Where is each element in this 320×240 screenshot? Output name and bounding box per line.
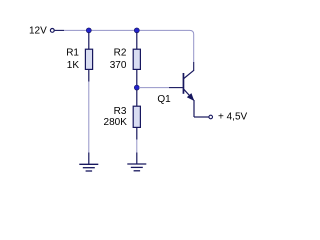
label R1 1K <box>66 48 79 71</box>
svg-text:Q1: Q1 <box>157 94 171 105</box>
resistor R1 <box>85 32 92 82</box>
label R2 370 <box>110 48 127 71</box>
svg-text:12V: 12V <box>29 26 47 37</box>
wire: R1 bottom to ground <box>88 82 90 153</box>
wire: node C to base <box>139 87 169 89</box>
wire: base pin <box>169 87 183 89</box>
resistor R3 <box>133 90 140 140</box>
transistor Q1 <box>183 70 195 117</box>
ground (under R3) <box>127 153 146 171</box>
wire: terminal pin stub <box>55 29 64 31</box>
node A junction (R1 top) <box>86 28 91 33</box>
wire: emitter to output terminal <box>194 116 209 118</box>
svg-text:R3: R3 <box>114 106 127 117</box>
wire: R3 bottom to ground <box>136 140 138 153</box>
wire: collector pin <box>193 62 195 71</box>
terminal output <box>209 115 213 119</box>
svg-text:370: 370 <box>110 60 127 71</box>
svg-text:+ 4,5V: + 4,5V <box>218 111 248 122</box>
terminal 12V <box>50 29 54 33</box>
svg-text:R1: R1 <box>66 48 79 59</box>
svg-text:R2: R2 <box>114 48 127 59</box>
ground (under R1) <box>79 153 98 172</box>
resistor R2 <box>133 32 140 86</box>
label R3 280K <box>104 106 128 128</box>
svg-text:280K: 280K <box>104 117 128 128</box>
svg-text:1K: 1K <box>67 60 80 71</box>
node B junction (R2 top) <box>134 28 139 33</box>
wire: top rail from terminal to collector corner <box>64 30 194 62</box>
node C junction (base node) <box>134 85 139 90</box>
